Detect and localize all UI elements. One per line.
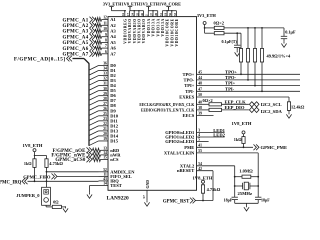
pin A1 (pin 12) of U1 xyxy=(102,16,117,22)
wire AMDIX strap to jumper xyxy=(46,172,48,188)
pin EECS (pin 39) of U1 xyxy=(183,112,203,118)
pin VDDVARIO (pin 24) of U1 top xyxy=(131,11,137,44)
svg-text:GPMC_A4: GPMC_A4 xyxy=(63,35,89,40)
net label GPMC_PME xyxy=(261,145,288,150)
resistor 12.4kΩ EXRES xyxy=(287,102,290,112)
svg-text:VDD18CORE: VDD18CORE xyxy=(170,18,174,46)
power label 3V3_ETH (termination) xyxy=(197,13,217,18)
wire EECS stub xyxy=(197,115,214,117)
pin VDD18CORE (pin 56) of U1 top xyxy=(168,11,174,47)
svg-text:0.1μF(T): 0.1μF(T) xyxy=(222,39,238,44)
wire GPMC_A5 to pin xyxy=(95,40,102,44)
pin AMDIX_EN (pin 52) of U1 xyxy=(99,168,136,174)
off-page connector F/GPMC_AD bus xyxy=(67,56,73,62)
svg-text:A4: A4 xyxy=(110,34,116,39)
ground below 12.4kΩ xyxy=(286,112,291,118)
pin VDDVARIO (pin 17) of U1 top xyxy=(126,11,132,44)
wire GPMC_A2 to pin xyxy=(95,23,102,27)
pin VDDVARIO (pin 46) of U1 top xyxy=(140,11,146,44)
off-page connector GPMC_PME xyxy=(254,144,260,150)
pin GND (pin 57) of U1 bottom xyxy=(142,180,150,200)
net label GPMC_RST xyxy=(163,199,190,204)
wire net TPI- xyxy=(197,90,301,92)
svg-text:45: 45 xyxy=(198,70,202,74)
jumper J1 body xyxy=(42,187,51,205)
svg-text:TPI-: TPI- xyxy=(225,86,235,91)
wire PME net xyxy=(197,146,254,148)
svg-text:A2: A2 xyxy=(110,23,116,28)
off-page connector GPMC_FIFO xyxy=(52,174,58,180)
svg-text:34: 34 xyxy=(103,67,107,71)
net label TPO- xyxy=(225,75,236,80)
svg-text:17: 17 xyxy=(126,12,130,16)
net label GPMC_A3 xyxy=(63,30,89,35)
svg-text:20: 20 xyxy=(103,132,107,136)
net label GPMC_IRQ xyxy=(0,181,22,186)
pin TPO+ (pin 45) of U1 xyxy=(182,70,202,76)
svg-text:27: 27 xyxy=(103,102,107,106)
svg-text:36: 36 xyxy=(103,62,107,66)
pin D15 (pin 19) of U1 xyxy=(99,137,119,143)
svg-text:F/GPMC_AD[0..15]: F/GPMC_AD[0..15] xyxy=(14,56,66,62)
svg-text:EXRES: EXRES xyxy=(179,95,195,100)
pin FIFO_SEL (pin 11) of U1 xyxy=(99,173,132,179)
pin D8 (pin 27) of U1 xyxy=(99,102,117,108)
svg-text:1V8_ETH: 1V8_ETH xyxy=(23,143,43,148)
svg-text:47: 47 xyxy=(198,87,202,91)
svg-text:4: 4 xyxy=(198,133,200,137)
label 4.75kΩ left xyxy=(49,161,63,166)
ground below 0.1uF right xyxy=(281,41,286,47)
label 12.4kΩ xyxy=(291,105,305,110)
svg-text:nRESET: nRESET xyxy=(177,168,194,173)
svg-text:31: 31 xyxy=(103,82,107,86)
svg-text:9: 9 xyxy=(105,33,107,37)
ground below 0.1uF left xyxy=(235,50,240,56)
pin VDDIOREG (pin 16) of U1 top xyxy=(121,11,127,44)
svg-text:LAN9220: LAN9220 xyxy=(107,196,129,202)
svg-text:26: 26 xyxy=(103,107,107,111)
wire EXRES to R termination xyxy=(197,97,290,102)
svg-text:11: 11 xyxy=(103,173,107,177)
label 18pF left xyxy=(224,197,233,202)
svg-text:44: 44 xyxy=(198,76,202,80)
wire XTAL2 net xyxy=(197,166,236,197)
power symbol 3V3_ETH circle xyxy=(203,22,206,28)
svg-text:12.4kΩ: 12.4kΩ xyxy=(291,105,305,110)
svg-text:18pF: 18pF xyxy=(224,197,233,202)
svg-text:19: 19 xyxy=(103,137,107,141)
svg-text:0Ω: 0Ω xyxy=(53,200,59,205)
pin XTAL1/CLKIN (pin 55) of U1 xyxy=(164,149,202,155)
ground below GND pin xyxy=(144,200,149,206)
resistor 0Ω top 1 xyxy=(205,26,284,29)
power label 1V8_CORE (top group 4) xyxy=(159,2,181,7)
svg-text:VDDVARIO: VDDVARIO xyxy=(138,18,142,43)
svg-text:3V3_ETH: 3V3_ETH xyxy=(197,13,217,18)
net label GPMC_A2 xyxy=(63,24,89,29)
svg-text:GPMC_RST: GPMC_RST xyxy=(163,199,190,204)
off-page connector GPMC_A5 xyxy=(90,40,96,46)
svg-text:GPMC_A5: GPMC_A5 xyxy=(63,41,89,46)
resistor 49.9Ω termination 1 xyxy=(239,33,242,74)
pin A2 (pin 11) of U1 xyxy=(102,21,117,27)
pin nRESET (pin 42) of U1 xyxy=(177,167,202,173)
svg-text:GPMC_A3: GPMC_A3 xyxy=(63,30,89,35)
resistor 4.75kΩ reset pullup xyxy=(201,185,204,201)
capacitor C 18pF left xyxy=(232,197,238,203)
pin D12 (pin 22) of U1 xyxy=(99,122,119,128)
bus entry to D10 xyxy=(89,116,99,121)
wire TEST to ground xyxy=(90,186,99,193)
wire EEP_DIO with series resistor xyxy=(197,108,249,111)
svg-text:A7: A7 xyxy=(110,51,116,56)
svg-text:30: 30 xyxy=(103,87,107,91)
resistor 4.75kΩ AMDIX pullup xyxy=(45,159,48,172)
svg-text:7: 7 xyxy=(105,44,107,48)
svg-text:25: 25 xyxy=(103,112,107,116)
bus entry to D11 xyxy=(89,121,99,126)
power symbol 1V8_CORE rail 4 xyxy=(162,7,176,12)
wire GPMC_A6 to pin xyxy=(95,46,102,50)
svg-text:14: 14 xyxy=(103,151,107,155)
svg-text:EEDIO/GPIO3/TX_EN/TX_CLK: EEDIO/GPIO3/TX_EN/TX_CLK xyxy=(141,108,194,112)
pin D0 (pin 36) of U1 xyxy=(99,62,117,68)
wire GPMC_FIFO net xyxy=(57,175,99,177)
wire EEP_CLK with series resistor xyxy=(197,103,249,106)
svg-text:5: 5 xyxy=(198,138,200,142)
svg-text:1kΩ: 1kΩ xyxy=(24,161,32,166)
net label TPO+ xyxy=(225,69,237,74)
svg-text:53: 53 xyxy=(173,12,177,16)
svg-text:43: 43 xyxy=(103,177,107,181)
svg-text:1kΩ: 1kΩ xyxy=(234,137,242,142)
label 0Ω jumper xyxy=(53,200,59,205)
pin EEDIO (pin 38) of U1 xyxy=(141,106,202,112)
svg-text:1V8_ETH: 1V8_ETH xyxy=(232,121,252,126)
wire nRESET net xyxy=(197,171,214,201)
svg-text:GPMC_A1: GPMC_A1 xyxy=(63,18,89,23)
svg-text:TPI+: TPI+ xyxy=(225,81,236,86)
capacitor 0.1μF right xyxy=(281,28,287,41)
power symbol 3V3_ETH rail 3 xyxy=(146,7,157,12)
svg-text:54: 54 xyxy=(198,162,202,166)
wire jumper to 0 ohm xyxy=(46,205,52,207)
svg-text:nCS: nCS xyxy=(110,157,119,162)
svg-text:TPO-: TPO- xyxy=(184,77,195,82)
bus entry to D0 xyxy=(89,66,99,71)
pin D1 (pin 34) of U1 xyxy=(99,67,117,73)
pin VDD18CORE (pin 18) of U1 top xyxy=(164,11,170,47)
bus entry to D5 xyxy=(89,91,99,96)
svg-text:VDDVARIO: VDDVARIO xyxy=(133,18,137,43)
bus entry to D9 xyxy=(89,111,99,116)
net label EEP_CLK xyxy=(225,99,247,104)
svg-text:VDDVARIO: VDDVARIO xyxy=(142,18,146,43)
wire XTAL1 net xyxy=(197,153,260,197)
svg-text:I2C2_SCL: I2C2_SCL xyxy=(261,102,282,107)
net label GPMC_A7 xyxy=(63,53,89,58)
svg-text:D15: D15 xyxy=(110,138,118,143)
svg-text:I2C2_SDA: I2C2_SDA xyxy=(261,109,283,114)
svg-text:A6: A6 xyxy=(110,46,116,51)
net label GPMC_A5 xyxy=(63,41,89,46)
net label GPMC_nCS0 xyxy=(55,158,86,163)
net label I2C2_SCL xyxy=(261,102,282,107)
power symbol 1V8_ETH circle left xyxy=(33,149,36,156)
power label 1V8_ETH (top group 2) xyxy=(122,2,141,7)
svg-text:TPO-: TPO- xyxy=(225,75,236,80)
pin nWR (pin 14) of U1 xyxy=(101,151,122,157)
wire 3V3 to second resistor xyxy=(204,27,206,33)
bus entry to D7 xyxy=(89,101,99,106)
wire GPMC_A7 to pin xyxy=(95,52,102,56)
power label 1V8_ETH (reset pullup) xyxy=(193,175,213,180)
off-page connector GPMC_RST xyxy=(190,198,196,204)
pin A6 (pin 7) of U1 xyxy=(102,44,117,50)
IC U1 reference label LAN9220 xyxy=(107,196,129,202)
pin D9 (pin 26) of U1 xyxy=(99,107,117,113)
label 1kΩ left xyxy=(24,161,32,166)
svg-text:55: 55 xyxy=(198,149,202,153)
svg-text:VDD33A: VDD33A xyxy=(147,18,151,36)
svg-text:A1: A1 xyxy=(110,17,116,22)
label 0Ω×2 EEP series xyxy=(203,98,213,103)
svg-text:56: 56 xyxy=(168,12,172,16)
jumper J1 label JUMPER_0 xyxy=(16,193,40,198)
svg-text:4.75kΩ: 4.75kΩ xyxy=(207,187,221,192)
pin TPI+ (pin 48) of U1 xyxy=(184,82,202,88)
svg-text:10: 10 xyxy=(103,27,107,31)
label 25MHz xyxy=(238,191,253,196)
svg-text:21: 21 xyxy=(103,127,107,131)
svg-text:6: 6 xyxy=(105,50,107,54)
svg-text:1V8_CORE: 1V8_CORE xyxy=(159,2,181,7)
svg-text:50: 50 xyxy=(198,93,202,97)
svg-text:15: 15 xyxy=(103,156,107,160)
svg-text:0Ω×2: 0Ω×2 xyxy=(203,98,213,103)
svg-text:GPMC_PME: GPMC_PME xyxy=(261,145,288,150)
off-page connector GPMC_nCS0 xyxy=(87,157,93,163)
svg-text:1.0MΩ: 1.0MΩ xyxy=(239,169,253,174)
wire GPMC_A1 to pin xyxy=(95,18,102,22)
svg-text:VDD33A: VDD33A xyxy=(152,18,156,36)
pin A5 (pin 8) of U1 xyxy=(102,39,117,45)
svg-text:38: 38 xyxy=(198,106,202,110)
wire GPMC_IRQ net xyxy=(28,180,99,182)
svg-text:32: 32 xyxy=(103,77,107,81)
net label GPMC_FIFO xyxy=(23,174,51,179)
label 18pF right xyxy=(261,197,270,202)
off-page connector GPMC_A7 xyxy=(90,51,96,57)
pin D5 (pin 30) of U1 xyxy=(99,87,117,93)
svg-text:VDDIOREG: VDDIOREG xyxy=(123,18,127,44)
net label TPI- xyxy=(225,86,235,91)
off-page connector GPMC_A1 xyxy=(90,17,96,23)
svg-text:3V3_ETH: 3V3_ETH xyxy=(140,2,159,7)
crystal Y1 25MHz xyxy=(235,182,259,190)
svg-text:0Ω×2: 0Ω×2 xyxy=(214,21,224,26)
wire GPMC_A3 to pin xyxy=(95,29,102,33)
wire F/GPMC_nWE to pin xyxy=(93,153,101,157)
net label GPMC_A1 xyxy=(63,18,89,23)
svg-text:GPMC_A2: GPMC_A2 xyxy=(63,24,89,29)
svg-text:GPMC_FIFO: GPMC_FIFO xyxy=(23,174,51,179)
bus entry to D13 xyxy=(89,131,99,136)
pin VDD33A (pin 2) of U1 top xyxy=(145,11,151,37)
pin EECLK (pin 40) of U1 xyxy=(139,100,202,106)
off-page connector GPMC_A6 xyxy=(90,45,96,51)
off-page connector GPMC_IRQ xyxy=(22,178,28,184)
pin D10 (pin 25) of U1 xyxy=(99,112,119,118)
svg-text:28: 28 xyxy=(103,97,107,101)
svg-text:TPO+: TPO+ xyxy=(182,72,194,77)
pin D6 (pin 29) of U1 xyxy=(99,92,117,98)
pin D7 (pin 28) of U1 xyxy=(99,97,117,103)
wire nLED3 stub xyxy=(197,141,209,143)
svg-text:24: 24 xyxy=(131,12,135,16)
svg-text:35: 35 xyxy=(135,12,139,16)
bus entry to D8 xyxy=(89,106,99,111)
net label I2C2_SDA xyxy=(261,109,283,114)
power symbol 3V3_ETH rail 1 xyxy=(109,7,126,12)
pin D4 (pin 31) of U1 xyxy=(99,82,117,88)
bus AD[0..15] main line xyxy=(73,59,90,146)
power label 3V3_ETH (top group 3) xyxy=(140,2,159,7)
wire net TPO+ xyxy=(197,73,301,75)
power symbol 1V8_ETH circle xyxy=(242,131,245,137)
off-page connector GPMC_A4 xyxy=(90,34,96,40)
svg-text:29: 29 xyxy=(103,92,107,96)
label 1kΩ xyxy=(234,137,242,142)
capacitor C 18pF right xyxy=(255,197,261,203)
wire net TPI+ xyxy=(197,85,301,87)
pin VDD33A (pin 51) of U1 top xyxy=(159,11,165,37)
pin A7 (pin 6) of U1 xyxy=(102,50,117,56)
wire GPMC_RST net xyxy=(195,200,213,202)
power label 3V3_ETH (top group 1) xyxy=(103,2,122,7)
svg-text:GPMC_A7: GPMC_A7 xyxy=(63,53,89,58)
svg-text:1V8_ETH: 1V8_ETH xyxy=(122,2,141,7)
label 0Ω×2 top xyxy=(214,21,224,26)
svg-text:18: 18 xyxy=(164,12,168,16)
svg-text:1V8_ETH: 1V8_ETH xyxy=(193,175,213,180)
svg-text:16: 16 xyxy=(121,12,125,16)
power symbol 1V8_ETH rail 2 xyxy=(128,7,144,12)
svg-text:TPI+: TPI+ xyxy=(184,83,195,88)
wire crystal ground rail xyxy=(235,202,259,204)
resistor 49.9Ω termination 2 xyxy=(246,28,249,80)
svg-text:VDD18CORE: VDD18CORE xyxy=(166,18,170,46)
svg-text:A3: A3 xyxy=(110,29,116,34)
ground crystal xyxy=(244,203,249,211)
bus entry to D4 xyxy=(89,86,99,91)
svg-text:49: 49 xyxy=(154,12,158,16)
svg-text:8: 8 xyxy=(105,39,107,43)
svg-text:TPI-: TPI- xyxy=(185,89,195,94)
pin D3 (pin 32) of U1 xyxy=(99,77,117,83)
resistor 49.9Ω termination 3 xyxy=(253,28,256,86)
wire net LED2 xyxy=(197,136,225,138)
bus entry to D6 xyxy=(89,96,99,101)
svg-text:49.9Ω/1%×4: 49.9Ω/1%×4 xyxy=(267,53,292,58)
pin TPI- (pin 47) of U1 xyxy=(185,87,202,93)
pin XTAL2 (pin 54) of U1 xyxy=(180,162,202,168)
svg-text:EEP_CLK: EEP_CLK xyxy=(225,99,247,104)
svg-text:3: 3 xyxy=(198,129,200,133)
pin VDD18CORE (pin 53) of U1 top xyxy=(173,11,179,47)
wire F/GPMC_nOE to pin xyxy=(93,148,101,152)
pin VDD33A (pin 37) of U1 top xyxy=(149,11,155,37)
label 4.75kΩ right xyxy=(207,187,221,192)
op IC U1 LAN9220 body xyxy=(108,17,197,191)
pin TEST (pin 14) of U1 xyxy=(99,182,122,188)
pin GPIO2/nLED3 (pin 5) of U1 xyxy=(165,138,200,144)
off-page connector I2C2_SDA xyxy=(249,107,259,112)
svg-text:TEST: TEST xyxy=(110,183,122,188)
net label F/GPMC_nOE xyxy=(52,149,86,154)
svg-text:11: 11 xyxy=(103,21,107,25)
bus entry to D3 xyxy=(89,81,99,86)
pin VDDVARIO (pin 35) of U1 top xyxy=(135,11,141,44)
pin D11 (pin 23) of U1 xyxy=(99,117,119,123)
pin EXRES (pin 50) of U1 xyxy=(179,93,202,99)
svg-text:0.1μF: 0.1μF xyxy=(285,29,296,34)
pin GPIO1/nLED2 (pin 4) of U1 xyxy=(165,133,200,139)
svg-text:23: 23 xyxy=(103,117,107,121)
bus entry to D2 xyxy=(89,76,99,81)
net label F/GPMC_nWE xyxy=(51,154,86,159)
bus F/GPMC_AD[0..15] label xyxy=(14,56,66,62)
bus entry to D14 xyxy=(89,136,99,141)
svg-text:48: 48 xyxy=(198,82,202,86)
svg-text:EECLK/GPIO4/RX_DV/RX_CLK: EECLK/GPIO4/RX_DV/RX_CLK xyxy=(139,103,194,107)
pin D14 (pin 20) of U1 xyxy=(99,132,119,138)
svg-text:GPMC_IRQ: GPMC_IRQ xyxy=(0,181,22,186)
svg-text:13: 13 xyxy=(103,146,107,150)
wire AMDIX_EN net xyxy=(46,171,99,173)
capacitor 0.1μF left xyxy=(234,33,240,50)
net label LED2 xyxy=(213,132,225,137)
power label 1V8_ETH (left pullups) xyxy=(23,143,43,148)
net label GPMC_A4 xyxy=(63,35,89,40)
svg-text:EEP_DIO: EEP_DIO xyxy=(225,105,245,110)
svg-text:VDD33A: VDD33A xyxy=(156,18,160,36)
label 0.1μF right xyxy=(285,29,296,34)
resistor 0Ω top 2 xyxy=(205,32,241,35)
wire net LED1 xyxy=(197,132,225,134)
svg-text:14: 14 xyxy=(103,182,107,186)
ground after 0 ohm xyxy=(63,206,68,212)
wire pullup split xyxy=(34,155,47,159)
pin A3 (pin 10) of U1 xyxy=(102,27,117,33)
svg-text:51: 51 xyxy=(159,12,163,16)
wire GPMC_A4 to pin xyxy=(95,35,102,39)
svg-text:37: 37 xyxy=(149,12,153,16)
resistor 0Ω jumper xyxy=(52,205,65,208)
pin IRQ (pin 43) of U1 xyxy=(99,177,120,183)
label 49.9Ω/1%×4 xyxy=(267,53,292,58)
resistor 1.0MΩ crystal feedback xyxy=(235,175,259,178)
svg-text:41: 41 xyxy=(198,143,202,147)
svg-text:VDDVARIO: VDDVARIO xyxy=(128,18,132,43)
power symbol 1V8_ETH circle 2 xyxy=(202,180,205,185)
resistor 1kΩ IRQ pullup xyxy=(33,159,36,181)
bus entry to D12 xyxy=(89,126,99,131)
svg-text:25MHz: 25MHz xyxy=(238,191,253,196)
svg-text:57: 57 xyxy=(142,195,146,199)
svg-text:LED2: LED2 xyxy=(213,132,225,137)
